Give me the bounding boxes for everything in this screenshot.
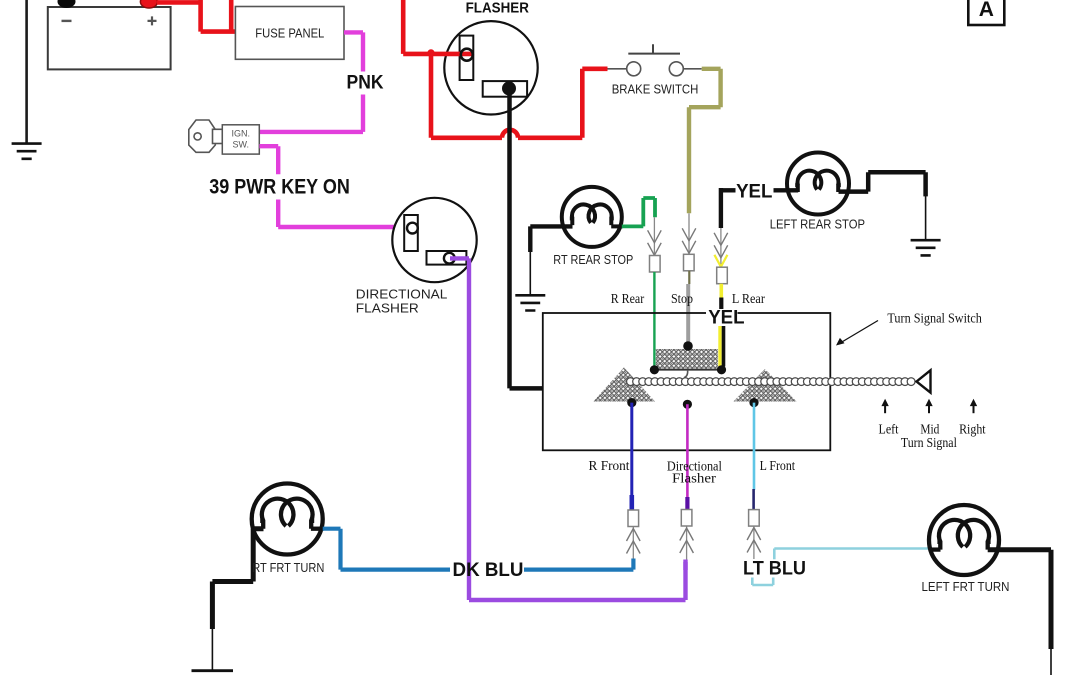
- wire cyan L Front from switch node down: [753, 403, 756, 490]
- RT FRT TURN lamp: [252, 484, 323, 555]
- directional flasher input terminal: [407, 223, 418, 234]
- wire lt blue to LEFT FRT TURN lamp: [774, 547, 929, 550]
- svg-text:Left: Left: [879, 421, 899, 436]
- node Stop (gray dot): [683, 341, 693, 351]
- wire dark Stop connector lead: [688, 271, 690, 284]
- R Front arrows (up): [632, 527, 634, 560]
- R Front connector: [628, 510, 639, 527]
- flasher body: [444, 21, 537, 114]
- LEFT FRT TURN lamp: [929, 505, 999, 575]
- RT FRT TURN right lead (black, inside bulb): [311, 527, 324, 531]
- L Rear yellow chevron: [714, 255, 727, 267]
- wire lt blue under-label routing: [752, 578, 773, 586]
- wire green R Rear connector to switch: [653, 272, 655, 368]
- svg-text:FUSE PANEL: FUSE PANEL: [255, 26, 324, 41]
- wire DK BLU from RT FRT TURN lamp: [323, 529, 450, 570]
- Directional arrows (up): [686, 527, 688, 561]
- svg-text:FLASHER: FLASHER: [356, 301, 419, 316]
- wire black dash L Rear: [719, 298, 723, 311]
- flasher output terminal block: [483, 81, 527, 97]
- svg-text:IGN.: IGN.: [232, 129, 251, 139]
- svg-text:L Front: L Front: [760, 458, 796, 473]
- wire black flasher output to turn signal switch: [510, 92, 543, 388]
- RT REAR STOP ground lead: [529, 250, 531, 295]
- wire navy R Front from switch node down: [630, 403, 633, 496]
- node L Rear (yellow dot): [717, 365, 726, 374]
- LEFT REAR STOP lamp: [787, 153, 849, 215]
- node Directional: [683, 400, 692, 409]
- svg-text:SW.: SW.: [233, 140, 250, 150]
- wire red drop to fuse panel from top edge: [229, 0, 234, 32]
- svg-text:FLASHER: FLASHER: [466, 0, 530, 16]
- left contact triangle: [593, 367, 655, 401]
- wire DK BLU stub up: [631, 559, 635, 570]
- right contact triangle: [733, 369, 796, 402]
- flasher input terminal: [461, 49, 473, 61]
- svg-text:LEFT FRT TURN: LEFT FRT TURN: [922, 579, 1010, 594]
- ground (RT REAR STOP): [515, 295, 545, 310]
- L Front arrows (up): [753, 526, 755, 559]
- svg-text:BRAKE SWITCH: BRAKE SWITCH: [612, 81, 699, 96]
- svg-text:Mid: Mid: [920, 421, 939, 436]
- brake switch: [608, 44, 702, 76]
- L Rear arrows: [714, 233, 728, 246]
- fuse panel: [235, 7, 344, 60]
- RT REAR STOP left lead (black): [530, 226, 572, 252]
- node L Front: [749, 398, 758, 407]
- L Rear connector: [717, 267, 728, 284]
- RT REAR STOP right lead (black, inside bulb): [611, 224, 622, 228]
- svg-text:RT FRT TURN: RT FRT TURN: [252, 560, 324, 575]
- flasher input terminal block: [460, 36, 474, 80]
- ground (battery): [12, 144, 42, 159]
- wire purple stub up: [683, 560, 687, 571]
- ignition switch box IGN. SW.: [222, 125, 259, 154]
- R Rear column arrow lead: [653, 217, 655, 255]
- Stop arrows: [682, 228, 696, 241]
- wire battery negative to ground (black): [25, 0, 28, 144]
- wire olive brake switch to Stop column: [689, 69, 721, 214]
- svg-text:A: A: [979, 0, 994, 21]
- wire PNK fuse panel to ignition switch (magenta): [259, 32, 363, 131]
- svg-text:YEL: YEL: [708, 307, 745, 328]
- wire gray Stop to switch: [686, 284, 690, 346]
- wire green RT REAR STOP to R Rear column: [622, 198, 655, 226]
- svg-text:YEL: YEL: [736, 182, 773, 203]
- junction dot red feed: [427, 49, 434, 56]
- node R Front: [627, 398, 636, 407]
- LEFT REAR STOP right lead to ground: [839, 172, 926, 196]
- wire battery positive (red) top run: [157, 0, 235, 32]
- svg-text:39 PWR KEY ON: 39 PWR KEY ON: [209, 176, 349, 199]
- svg-text:Turn Signal: Turn Signal: [901, 435, 957, 450]
- arrow to switch box: [839, 321, 879, 345]
- directional flasher input terminal block: [404, 215, 418, 251]
- svg-text:PNK: PNK: [347, 72, 384, 94]
- flasher output terminal: [503, 82, 515, 94]
- wire purple directional flasher output down and across: [450, 258, 686, 600]
- RT FRT TURN left lead (black) to ground: [212, 529, 263, 629]
- L Front connector: [749, 510, 760, 526]
- directional flasher output terminal block: [427, 251, 467, 265]
- Stop column arrow lead: [688, 213, 690, 254]
- battery positive terminal: [140, 0, 157, 8]
- wire black YEL segment left: [721, 188, 736, 192]
- wire yellow+black pair into switch: [718, 326, 721, 367]
- wire red flasher loop to brake switch (with hop over black wire): [431, 54, 608, 138]
- wire 39 PWR KEY ON (magenta) ignition switch to directional flasher: [259, 146, 412, 227]
- ground (LEFT REAR STOP): [911, 240, 941, 255]
- battery: [48, 7, 171, 69]
- turn signal switch box: [543, 313, 831, 450]
- svg-text:RT REAR STOP: RT REAR STOP: [553, 252, 633, 267]
- contact plate bottom line: [654, 369, 721, 371]
- wire red feed from top edge to flasher: [403, 0, 472, 54]
- Stop connector: [684, 254, 695, 270]
- RT REAR STOP lamp: [562, 187, 622, 247]
- hook contact plate to lever: [684, 370, 687, 378]
- L Rear top black wire from YEL line: [719, 188, 723, 228]
- L Rear column arrow lead: [720, 228, 722, 267]
- svg-text:Stop: Stop: [671, 291, 693, 306]
- ground (RT FRT TURN): [192, 669, 234, 672]
- svg-text:L Rear: L Rear: [732, 291, 765, 306]
- hatched contact plate: [656, 349, 718, 370]
- svg-text:R Front: R Front: [589, 458, 630, 473]
- node R Rear (green dot): [650, 365, 659, 374]
- svg-text:Flasher: Flasher: [672, 471, 717, 486]
- Directional connector: [681, 510, 692, 527]
- LEFT FRT TURN left lead (black, inside bulb): [929, 547, 940, 551]
- label YEL (on box top line): [706, 307, 745, 328]
- battery negative terminal: [58, 0, 76, 8]
- svg-text:LT BLU: LT BLU: [743, 558, 806, 580]
- directional flasher output terminal: [444, 253, 455, 264]
- lever handle triangle: [917, 370, 931, 392]
- reference box A: [968, 0, 1004, 25]
- svg-text:LEFT REAR STOP: LEFT REAR STOP: [770, 217, 865, 232]
- LEFT FRT TURN right lead (black): [988, 550, 1051, 649]
- svg-text:R Rear: R Rear: [611, 291, 645, 306]
- R Rear connector: [650, 256, 661, 273]
- Left Mid Right arrows: [881, 399, 977, 413]
- wire yellow L Rear below connector: [719, 284, 723, 298]
- ignition switch key: [189, 120, 223, 152]
- R Rear arrows: [648, 230, 662, 243]
- directional flasher body: [392, 198, 476, 282]
- svg-text:Right: Right: [959, 421, 986, 436]
- svg-text:DIRECTIONAL: DIRECTIONAL: [356, 287, 448, 302]
- lever bar (chain): [627, 378, 635, 386]
- svg-text:DK BLU: DK BLU: [453, 559, 524, 581]
- svg-text:Turn Signal Switch: Turn Signal Switch: [887, 310, 982, 325]
- wire DK BLU right of label: [524, 567, 633, 571]
- wire magenta Directional from switch node down: [686, 404, 689, 497]
